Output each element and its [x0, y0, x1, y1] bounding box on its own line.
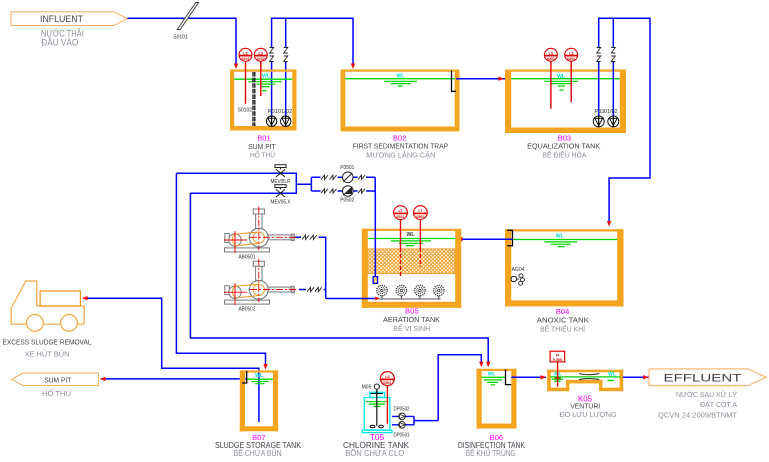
svg-text:INFLUENT: INFLUENT	[40, 14, 83, 25]
diffuser D3	[415, 285, 425, 299]
water level B07	[247, 373, 273, 384]
pump P0102	[281, 116, 291, 126]
wire B01 pump header to B02	[272, 18, 353, 66]
svg-text:EFFLUENT: EFFLUENT	[664, 372, 742, 384]
tank B02 walls	[341, 70, 460, 132]
svg-text:EXCESS SLUDGE REMOVAL: EXCESS SLUDGE REMOVAL	[3, 338, 92, 347]
svg-text:WL: WL	[406, 232, 415, 238]
svg-text:BỂ CHỨA BÙN: BỂ CHỨA BÙN	[234, 449, 282, 458]
level switch LS0302	[565, 48, 578, 102]
wire B03 pump risers and header	[599, 62, 614, 117]
svg-text:DP0502: DP0502	[394, 407, 410, 413]
svg-text:XE HÚT BÙN: XE HÚT BÙN	[25, 350, 70, 359]
svg-text:S0102: S0102	[238, 108, 253, 114]
instrument DO0501	[394, 206, 408, 278]
svg-text:WL: WL	[488, 371, 496, 377]
svg-text:LS: LS	[259, 51, 264, 55]
tank B06 walls	[477, 369, 517, 429]
effluent notes	[658, 390, 737, 420]
venturi K05 structure	[547, 370, 623, 392]
effluent pennant	[649, 369, 766, 386]
svg-text:HỐ THU: HỐ THU	[42, 388, 71, 398]
wire P0501/P0502 loop	[311, 177, 375, 195]
svg-text:SUM PIT: SUM PIT	[44, 375, 71, 384]
screen S0102	[238, 72, 255, 126]
wire B06 to venturi	[511, 376, 546, 378]
level switch LS0102	[254, 48, 267, 96]
flex joint blower AB0502	[307, 287, 322, 291]
wire B02 to B03	[456, 78, 505, 80]
tank B04 walls	[505, 229, 624, 306]
svg-text:BỂ ĐIỀU HÒA: BỂ ĐIỀU HÒA	[542, 150, 586, 160]
svg-text:EQUALIZATION TANK: EQUALIZATION TANK	[527, 144, 600, 151]
flex joint riser P0101	[270, 48, 274, 62]
water level B02	[345, 73, 454, 86]
svg-text:LS: LS	[385, 375, 390, 379]
svg-text:M05: M05	[362, 385, 372, 391]
tank B07 walls	[240, 370, 278, 431]
svg-text:WL: WL	[556, 234, 565, 240]
svg-text:ĐẦU VÀO: ĐẦU VÀO	[41, 38, 78, 48]
svg-text:MƯƠNG LẮNG CẬN: MƯƠNG LẮNG CẬN	[366, 151, 435, 160]
svg-text:BỒN CHỨA CLO: BỒN CHỨA CLO	[345, 448, 404, 458]
svg-text:DP0501: DP0501	[394, 433, 410, 439]
svg-text:WL: WL	[255, 373, 263, 379]
svg-text:NƯỚC SAU XỬ LÝ: NƯỚC SAU XỬ LÝ	[676, 390, 737, 399]
svg-text:BỂ KHỦ TRÙNG: BỂ KHỦ TRÙNG	[466, 449, 516, 458]
flex joint riser P0102	[284, 48, 288, 62]
svg-text:0.005: 0.005	[553, 358, 562, 362]
venturi throat curves	[579, 374, 599, 380]
level switch LS0101	[239, 48, 252, 104]
svg-text:VENTURI: VENTURI	[570, 401, 600, 410]
svg-text:LS: LS	[569, 51, 574, 55]
wire venturi to effluent	[623, 376, 649, 378]
dosing pump DP0502	[392, 407, 414, 420]
svg-text:ANOXIC TANK: ANOXIC TANK	[537, 316, 589, 325]
water level K05	[550, 372, 621, 382]
svg-text:0101: 0101	[242, 57, 250, 61]
wire B07 weir to sum pit	[101, 378, 247, 380]
svg-text:0502: 0502	[416, 215, 424, 219]
pump P0501	[340, 165, 354, 183]
svg-text:AG04: AG04	[512, 267, 525, 273]
pump P0101	[266, 116, 276, 126]
water level B03	[511, 74, 620, 90]
level switch LS0301	[544, 48, 557, 108]
svg-text:0102: 0102	[257, 57, 265, 61]
flex joints P0502 line	[321, 189, 365, 193]
pump P0301	[593, 116, 604, 127]
blower AB0502	[224, 259, 298, 313]
air lance tip	[373, 277, 377, 284]
svg-text:P0301/02: P0301/02	[595, 109, 618, 115]
wire truck suction from B07	[84, 298, 259, 422]
svg-text:AERATION TANK: AERATION TANK	[383, 315, 440, 324]
flex joint riser P0302	[611, 48, 615, 62]
svg-text:BỂ VI SINH: BỂ VI SINH	[393, 324, 430, 333]
svg-text:0501: 0501	[397, 215, 405, 219]
svg-text:HỐ THU: HỐ THU	[250, 150, 275, 160]
svg-text:B03: B03	[558, 136, 572, 143]
screen S0101	[173, 3, 198, 41]
agitator AG04	[511, 267, 525, 285]
tank B03 walls	[505, 70, 626, 134]
tank B05 walls	[362, 229, 461, 308]
sum pit pennant	[12, 373, 99, 386]
svg-text:0502: 0502	[383, 381, 391, 385]
media crosshatch zone B05	[368, 249, 455, 274]
svg-text:WL: WL	[557, 74, 566, 80]
weir B06	[506, 369, 512, 384]
svg-text:MEV05.X: MEV05.X	[271, 200, 292, 206]
svg-text:LS: LS	[243, 51, 248, 55]
wire air main from blowers to B05 diffusers	[295, 237, 378, 298]
wire B01 risers in tank	[272, 62, 286, 117]
wire sludge line to B07	[176, 173, 265, 367]
weir B02	[452, 71, 457, 92]
weir B07	[242, 371, 247, 383]
node arrow into B01	[234, 64, 238, 70]
svg-text:FI: FI	[556, 353, 559, 357]
svg-text:P0502: P0502	[340, 198, 354, 204]
air drop pipe into B05	[374, 195, 376, 277]
svg-text:AB0502: AB0502	[239, 307, 256, 313]
wire B04 to B05	[458, 238, 513, 240]
svg-text:FIRST SEDIMENTATION TRAP: FIRST SEDIMENTATION TRAP	[353, 144, 449, 151]
svg-text:0301: 0301	[547, 57, 555, 61]
water level B05	[368, 232, 455, 245]
flow indicator FI K05	[550, 351, 565, 386]
level switch LS05 T05	[380, 372, 394, 424]
svg-text:P0101/02: P0101/02	[268, 109, 293, 115]
svg-text:WL: WL	[262, 73, 271, 79]
water level B06	[482, 371, 506, 384]
svg-text:ĐO LƯU LƯỢNG: ĐO LƯU LƯỢNG	[560, 410, 617, 419]
svg-text:WL: WL	[396, 73, 405, 79]
flex joint riser P0301	[597, 48, 601, 62]
water level B04	[511, 234, 617, 247]
svg-text:S0101: S0101	[173, 35, 188, 41]
dosing pump DP0501	[392, 422, 414, 439]
svg-text:WL: WL	[608, 372, 616, 378]
diffuser D1	[377, 285, 387, 299]
valve MEV05.R	[271, 165, 291, 186]
wire MEV branch lines	[176, 173, 311, 193]
svg-text:AB0501: AB0501	[239, 255, 256, 261]
svg-text:B02: B02	[393, 136, 407, 143]
flex joint blower AB0501	[302, 235, 317, 239]
svg-text:P0501: P0501	[340, 165, 354, 171]
svg-text:0302: 0302	[567, 57, 575, 61]
tank B01 walls	[230, 70, 297, 131]
svg-text:BỂ THIẾU KHÍ: BỂ THIẾU KHÍ	[540, 324, 586, 334]
water level B01	[234, 73, 292, 90]
valve MEV05.X	[271, 185, 292, 206]
diffuser D4	[434, 285, 444, 299]
pump P0502	[340, 186, 354, 204]
weir B04	[507, 230, 512, 245]
instrument DO0502	[414, 206, 428, 267]
pump P0302	[608, 116, 619, 127]
svg-text:ĐẠT CỘT A: ĐẠT CỘT A	[700, 400, 737, 409]
blower AB0501	[224, 207, 298, 261]
wire influent header	[127, 18, 236, 66]
truck EXCESS SLUDGE REMOVAL	[11, 281, 84, 331]
flex joints P0501 line	[321, 175, 365, 179]
water level T05	[366, 402, 389, 407]
influent pennant	[11, 12, 127, 26]
wire chlorine dosing to B06	[414, 355, 481, 425]
svg-text:LS: LS	[549, 51, 554, 55]
mixer M05	[362, 384, 384, 428]
wire line to B06	[190, 193, 488, 365]
diffuser manifold	[379, 298, 441, 300]
svg-text:QCVN 24:2009/BTNMT: QCVN 24:2009/BTNMT	[658, 410, 737, 419]
diffuser D2	[396, 285, 406, 299]
tank T05 chlorine	[362, 392, 392, 432]
influent label NUOC THAI DAU VAO	[41, 27, 84, 47]
